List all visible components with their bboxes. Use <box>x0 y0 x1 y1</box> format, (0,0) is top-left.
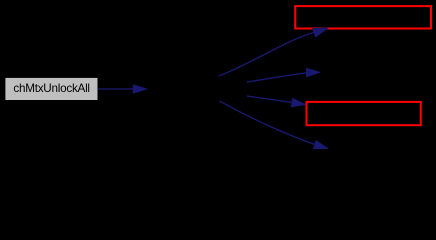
edge chMtxUnlockAll -> central node (wire + arrowhead) <box>98 85 147 93</box>
edge central -> top red node <box>219 24 329 76</box>
node mid-right (red bordered, truncated callee) <box>307 102 421 125</box>
node chMtxUnlockAll (root, grey filled) <box>5 78 97 100</box>
edge central -> second invisible node <box>247 68 320 82</box>
edge central -> mid-right red node <box>247 96 306 109</box>
node top-right (red bordered, truncated callee) <box>295 6 431 28</box>
svg-text:chMtxUnlockAll: chMtxUnlockAll <box>13 82 89 95</box>
edge central -> bottom invisible node <box>219 101 329 153</box>
